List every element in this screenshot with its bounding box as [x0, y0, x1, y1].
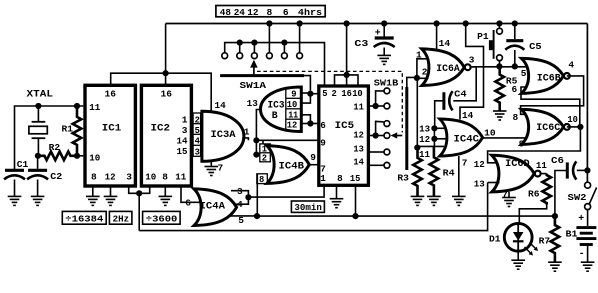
svg-text:12: 12: [474, 159, 485, 170]
wire (junction to IC5 pin 1): [248, 187, 324, 198]
svg-text:B: B: [272, 110, 278, 121]
wire (node to IC3A pin 14): [166, 73, 212, 114]
wire (IC5 pin 13 to contact 5): [368, 151, 383, 153]
label IC6A input 2: [422, 66, 428, 77]
node (IC5 pin 6 junction): [307, 120, 313, 126]
svg-text:6: 6: [320, 120, 326, 131]
wire (rail to C3): [383, 24, 385, 39]
label B1: [566, 228, 578, 239]
label IC5 top pins 5 2 16 10: [322, 89, 363, 99]
svg-text:IC6C: IC6C: [536, 122, 560, 133]
IC IC2 box: [141, 85, 191, 186]
svg-text:-: -: [579, 248, 585, 259]
svg-text:10: 10: [352, 89, 363, 99]
svg-text:30min: 30min: [294, 202, 322, 213]
wire (SW1A bus to contacts 1,2,3,5): [225, 43, 325, 53]
label IC2: [151, 123, 171, 135]
label IC4A output 4: [237, 199, 243, 210]
label IC1 pin 11: [89, 102, 100, 113]
IC3B pin cells 9 10 11 12: [286, 87, 302, 132]
label IC3A: [211, 129, 236, 140]
svg-text:14: 14: [215, 100, 226, 111]
ground (under C3): [377, 55, 391, 64]
ground (under B1): [581, 262, 595, 271]
label IC4A: [200, 200, 226, 211]
resistor R5: [495, 66, 504, 110]
wire (IC4C pin 13 input): [434, 127, 447, 129]
label IC4B output 9: [310, 152, 316, 163]
ground (under R7): [548, 262, 562, 271]
svg-text:8: 8: [337, 173, 343, 184]
wire (IC4C output to IC6C input 9): [483, 137, 527, 139]
svg-text:10: 10: [145, 171, 156, 182]
svg-text:10: 10: [484, 127, 496, 138]
label IC4A output 3: [237, 186, 243, 197]
svg-text:1: 1: [182, 114, 188, 125]
switch SW1B wiper arrow: [391, 132, 403, 138]
label IC4C input 12: [419, 134, 430, 145]
svg-text:14: 14: [462, 110, 473, 121]
label IC1 pins 8 12 3: [91, 171, 132, 182]
label C3 plus: [375, 27, 381, 38]
svg-text:14: 14: [177, 136, 188, 147]
label B1 minus: [579, 248, 585, 259]
label IC6B: [537, 72, 561, 83]
resistor R4: [430, 147, 439, 197]
node (P1 bottom junction): [496, 63, 502, 69]
node (rail junction IC5 16): [344, 20, 350, 26]
wire (IC6B input 6 from feedback): [521, 87, 580, 124]
svg-text:14: 14: [439, 38, 451, 49]
node (IC6C output junction): [577, 124, 583, 130]
svg-text:R7: R7: [539, 235, 551, 246]
wire (IC4A out 5 to bus A start): [230, 215, 258, 217]
svg-text:12: 12: [419, 134, 430, 145]
wire (oscillator top rail y=106): [15, 106, 84, 170]
wire (IC3A ground pin): [210, 160, 212, 166]
wire (rail to IC4C pin 14): [460, 24, 484, 120]
wire (rail drop to IC1/IC2 pin 16 node): [165, 24, 167, 87]
wire (node 11 to IC4C input 11): [417, 145, 444, 147]
wire (stub into IC4B pin 1 cell): [262, 140, 264, 144]
svg-text:1: 1: [320, 173, 326, 184]
label IC6C: [536, 122, 560, 133]
wire (node to IC1 pin 16): [111, 73, 166, 86]
wire (IC1 pin 8 to ground): [92, 186, 94, 196]
gate IC6A (NOR): [422, 49, 471, 86]
wire (IC6A inputs down to node 11): [416, 78, 418, 148]
ground (IC1 pin 12): [104, 196, 118, 205]
wire (IC6C output to junction): [567, 126, 581, 128]
svg-text:3: 3: [469, 54, 475, 65]
svg-text:9: 9: [310, 152, 316, 163]
label IC5: [335, 120, 355, 132]
node (rail junction contact 4): [266, 20, 272, 26]
gate IC6D (NOR): [492, 155, 541, 192]
node (R1 top junction): [74, 103, 80, 109]
label B1 plus: [578, 213, 584, 224]
wire (junction down to IC4B input 2): [255, 140, 257, 154]
svg-text:16: 16: [341, 89, 352, 99]
label IC3A output 1: [244, 126, 250, 137]
ground (IC4C pin 7): [452, 196, 466, 205]
label IC6B input 5: [521, 68, 527, 79]
label SW1B: [374, 78, 399, 89]
switch SW2: [585, 182, 597, 209]
wire (IC1 pin 12 to ground): [110, 186, 112, 196]
wire (IC6D pin 7 ground): [508, 192, 510, 197]
svg-text:IC6A: IC6A: [436, 63, 460, 74]
wire (IC6B output 4 to IC6C input 8): [521, 76, 584, 114]
svg-text:8: 8: [91, 171, 97, 182]
label IC6A pin 14: [439, 38, 451, 49]
node (pin 12 pair junction): [373, 132, 379, 138]
svg-text:D1: D1: [489, 234, 501, 245]
svg-text:9: 9: [291, 90, 296, 100]
svg-text:8: 8: [259, 175, 264, 185]
wire (IC2 pin 10 elbow): [139, 186, 150, 193]
wire (IC6A input 1 elbow): [417, 59, 429, 78]
label IC4C pin 14: [462, 110, 473, 121]
svg-text:6: 6: [283, 7, 289, 18]
label SW2: [568, 192, 587, 203]
svg-text:6: 6: [512, 84, 518, 95]
svg-text:R3: R3: [397, 172, 409, 183]
node (SW1A common junction): [307, 91, 313, 97]
wire (IC6A output 3 to C4): [453, 67, 476, 101]
wire (IC4A out 3 bracket): [231, 191, 248, 198]
node (pin3/pin10 junction): [136, 190, 142, 196]
label IC5 bottom pins 8 15: [337, 173, 361, 184]
svg-text:2: 2: [195, 115, 200, 125]
label C1: [17, 159, 29, 170]
wire (inputs junction to SW1B bar): [407, 77, 417, 88]
node (rail junction contact 6): [297, 20, 303, 26]
capacitor C1: [4, 170, 25, 196]
label C2: [50, 171, 62, 182]
svg-text:C1: C1: [17, 159, 29, 170]
svg-text:C5: C5: [529, 41, 542, 52]
label IC4A output 5: [238, 215, 244, 226]
wire (SW1A bar to IC5 pin 5 side node): [304, 76, 310, 91]
wire (IC5 pin 14 to contact 6): [368, 164, 383, 166]
label IC2 pins right 1 3 14 15: [177, 114, 188, 157]
gate IC4B (OR): [267, 146, 309, 184]
label IC1 pin 16: [105, 88, 117, 99]
label XTAL: [27, 89, 54, 100]
wire (into IC4B pin 2 cell): [256, 154, 259, 156]
svg-text:9: 9: [519, 138, 525, 149]
resistor R7: [551, 216, 560, 262]
wire (right supply rail down): [586, 24, 588, 183]
wire (rail to SW1A contact 6): [299, 24, 301, 53]
svg-text:R1: R1: [62, 124, 74, 135]
wire (D1 to ground): [517, 251, 519, 260]
wire (junction to IC5 pin 9): [256, 139, 318, 141]
svg-text:2: 2: [262, 154, 267, 164]
svg-text:IC4C: IC4C: [454, 133, 480, 144]
wire (IC6D output to R6): [541, 173, 547, 175]
label IC2 pin 16: [161, 88, 173, 99]
wire (rail to C5): [514, 24, 516, 40]
capacitor C2: [27, 156, 48, 197]
label IC5 right pins 11 12 13 14: [353, 102, 364, 168]
svg-text:5: 5: [238, 215, 244, 226]
wire (IC3B pin 11 elbow to IC5 pin 6): [303, 115, 311, 124]
svg-text:IC1: IC1: [102, 123, 122, 135]
svg-text:2: 2: [332, 89, 337, 99]
label box divider ratio 16384: [62, 211, 106, 224]
node (pin 15 bus junction): [352, 213, 358, 219]
label IC6A: [436, 63, 460, 74]
svg-text:8: 8: [162, 171, 168, 182]
svg-text:÷3600: ÷3600: [146, 213, 178, 224]
svg-text:SW1A: SW1A: [240, 80, 267, 91]
label IC4C: [454, 133, 480, 144]
label IC4C output 10: [484, 127, 496, 138]
svg-text:7: 7: [218, 163, 224, 174]
capacitor C4: [444, 91, 453, 110]
svg-text:13: 13: [247, 98, 258, 109]
node (IC4B input 2 junction): [253, 152, 259, 158]
label IC6D: [505, 158, 530, 169]
switch SW1A wiper arrow: [250, 60, 258, 75]
label IC6C input 8: [513, 112, 519, 123]
svg-text:R6: R6: [528, 188, 540, 199]
label box 30min: [291, 201, 324, 213]
svg-text:15: 15: [350, 173, 361, 184]
wire (junction to IC1 pin 10): [77, 155, 83, 157]
IC4B input pin cells 1 2: [260, 144, 271, 164]
node (IC4C pin 13 junction): [431, 125, 437, 131]
node (dots on SW1A selector bus): [237, 40, 288, 46]
label box 2Hz: [109, 211, 131, 224]
svg-text:9: 9: [320, 137, 326, 148]
wire (IC4B output to IC5 pin 7): [309, 164, 318, 166]
ground (IC1 pin 8): [86, 196, 100, 205]
svg-text:12: 12: [247, 7, 258, 18]
label C3: [354, 38, 368, 49]
label IC4C pin 7: [462, 157, 468, 168]
label IC6C input 9: [519, 138, 525, 149]
label IC2 pins bottom 10 8 11: [145, 171, 186, 182]
wire (junction down to bottom bus B): [138, 193, 140, 230]
svg-text:7: 7: [502, 189, 508, 200]
svg-text:15: 15: [177, 146, 188, 157]
ground (under R3): [411, 196, 425, 205]
wire (IC1 pin 3 elbow): [129, 186, 140, 193]
svg-text:7: 7: [462, 157, 468, 168]
svg-text:1: 1: [244, 126, 250, 137]
svg-text:SW1B: SW1B: [374, 78, 399, 89]
node (rail junction IC6A 14): [434, 20, 440, 26]
label IC1 pin 10: [89, 153, 100, 164]
label R6: [528, 188, 540, 199]
gate IC3A (AND): [202, 111, 244, 161]
label SW1A: [240, 80, 267, 91]
svg-text:16: 16: [105, 88, 117, 99]
svg-text:8: 8: [267, 7, 273, 18]
label IC6C output 10: [567, 114, 578, 125]
svg-text:2: 2: [422, 66, 428, 77]
label IC6D output 11: [536, 160, 547, 171]
svg-text:10: 10: [287, 100, 298, 110]
svg-text:3: 3: [195, 147, 200, 157]
wire (node into IC5 left edge): [310, 93, 317, 95]
wire bus A (to R7 node): [257, 215, 555, 217]
switch SW1A contact circles: [222, 53, 303, 59]
label P1: [477, 31, 489, 42]
svg-text:14: 14: [353, 157, 364, 168]
gate IC4C (OR 3-input): [440, 119, 483, 156]
svg-text:IC2: IC2: [151, 123, 171, 135]
svg-text:10: 10: [89, 153, 100, 164]
capacitor C3: [374, 38, 395, 55]
svg-text:4hrs: 4hrs: [298, 7, 322, 18]
wire (IC5 pin 12 to contacts 3,4): [368, 121, 383, 135]
svg-text:IC6D: IC6D: [505, 158, 530, 169]
label IC4B: [279, 160, 305, 171]
crystal XTAL symbol: [29, 106, 47, 156]
svg-text:13: 13: [474, 178, 485, 189]
label IC6A input 1: [416, 49, 422, 60]
gate IC6B (NOR): [522, 58, 570, 93]
label IC3B: [268, 100, 285, 122]
label R3: [397, 172, 409, 183]
node (IC4A output junction): [245, 194, 251, 200]
svg-text:SW2: SW2: [568, 192, 587, 203]
svg-text:4: 4: [568, 60, 574, 71]
svg-text:11: 11: [175, 171, 186, 182]
switch SW1B bar: [405, 87, 408, 170]
wire (IC4C pin 7 ground): [458, 156, 460, 196]
power rail (top horizontal supply wire): [166, 23, 588, 25]
label node 11: [419, 149, 430, 160]
svg-text:IC3A: IC3A: [211, 129, 236, 140]
wire (output 10 to IC6D input 12): [488, 127, 581, 163]
IC IC5 box: [319, 86, 369, 185]
wire (IC3A output 1): [242, 138, 248, 140]
svg-text:11: 11: [353, 102, 364, 113]
wire (battery to ground): [587, 245, 589, 263]
svg-text:10: 10: [567, 114, 578, 125]
node (IC6A inputs junction): [414, 75, 420, 81]
svg-text:16: 16: [161, 88, 173, 99]
label IC6B output 4: [568, 60, 574, 71]
svg-text:B1: B1: [566, 228, 578, 239]
wire (node up to C6): [555, 171, 566, 217]
pushbutton P1: [489, 24, 502, 67]
capacitor C5: [505, 41, 524, 67]
svg-text:12: 12: [353, 130, 364, 141]
node (rail junction C6): [584, 167, 590, 173]
wire (C4 left plate to IC4C inputs): [435, 101, 444, 129]
label IC6D pin 7: [502, 189, 508, 200]
IC IC1 box: [85, 85, 135, 186]
wire (IC6D input 13): [488, 182, 500, 184]
wire (IC6A input 2): [417, 77, 429, 79]
label IC5 left pins 6 9 7 1: [320, 120, 326, 184]
wire (IC5 pin 15 to bus A): [355, 185, 357, 216]
resistor R1: [73, 106, 82, 156]
wire (monostable node to IC6B input 5): [471, 66, 526, 68]
ground (IC6D pin 7): [502, 198, 516, 207]
label R2: [49, 142, 61, 153]
gate IC6C (NOR): [522, 109, 570, 144]
svg-text:IC6B: IC6B: [537, 72, 561, 83]
svg-text:3: 3: [126, 171, 132, 182]
svg-text:12: 12: [105, 171, 116, 182]
node (node 11 junction): [414, 145, 420, 151]
svg-text:6: 6: [185, 197, 191, 208]
label C4: [454, 89, 467, 100]
label IC6B input 6: [512, 84, 518, 95]
svg-text:2Hz: 2Hz: [113, 213, 130, 224]
svg-text:+: +: [578, 213, 584, 224]
svg-text:C2: C2: [50, 171, 62, 182]
label R1: [62, 124, 74, 135]
battery B1: [576, 228, 596, 245]
wire (IC2 pin 8 to ground): [164, 186, 166, 196]
wire (tie bracket pins 2 and 10): [335, 75, 359, 86]
wire (IC5 pin 11 to contacts 1,2): [368, 91, 383, 106]
node (rail junction P1): [496, 20, 502, 26]
svg-text:5: 5: [521, 68, 527, 79]
wire (IC3B output 13 down): [256, 110, 261, 141]
svg-text:4: 4: [195, 137, 201, 147]
label C5: [529, 41, 542, 52]
ground (IC3A pin 7): [205, 167, 219, 176]
resistor R3: [413, 148, 422, 197]
ground (IC5 pin 8): [330, 199, 344, 208]
ground (IC2 pin 8): [159, 196, 173, 205]
svg-text:P1: P1: [477, 31, 489, 42]
coupling dashed link SW1A to SW1B: [257, 71, 402, 132]
label IC6D input 12: [474, 159, 485, 170]
svg-text:48: 48: [220, 7, 231, 18]
resistor R6: [542, 174, 551, 205]
label R4: [443, 168, 455, 179]
svg-text:R4: R4: [443, 168, 455, 179]
node (junction above IC2 pin 16): [163, 70, 169, 76]
wire (IC4B pin 8 to bus A): [256, 174, 258, 216]
IC4B input pin cell 8: [257, 174, 268, 185]
svg-text:12: 12: [287, 121, 298, 131]
svg-text:XTAL: XTAL: [27, 89, 54, 100]
wire (IC2 pin 11 to IC4A input 6): [181, 186, 201, 202]
capacitor C6: [567, 161, 576, 179]
svg-text:C3: C3: [354, 38, 368, 49]
svg-text:5: 5: [195, 126, 200, 136]
label box divider 3600: [143, 211, 181, 224]
wire (IC4A out 4 bracket): [234, 197, 249, 204]
resistor R2: [38, 152, 77, 161]
wire (rail to IC6A pin 14): [436, 24, 438, 50]
wire (R6 to D1): [519, 205, 546, 224]
node (rail junction C5): [512, 20, 518, 26]
svg-text:11: 11: [288, 110, 298, 120]
svg-text:+: +: [375, 27, 381, 38]
ground (under C1): [8, 196, 22, 205]
switch SW1A bar: [220, 74, 304, 77]
node (pins 2-16-10 tie junction): [344, 72, 350, 78]
svg-text:IC4B: IC4B: [279, 160, 305, 171]
svg-text:C6: C6: [551, 155, 564, 166]
node (IC3A/IC3B output junction): [253, 137, 259, 143]
svg-text:IC4A: IC4A: [200, 200, 226, 211]
wire (junction down to R4): [433, 128, 435, 146]
label IC3B pin 13: [247, 98, 258, 109]
